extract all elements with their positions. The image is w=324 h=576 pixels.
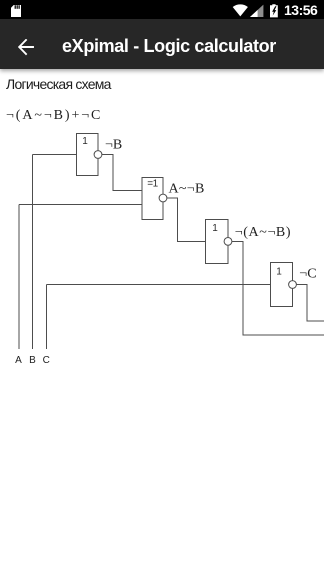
status bar (0, 0, 324, 19)
formula text (6, 108, 102, 124)
XNOR gate G2 body (142, 178, 163, 220)
svg-text:¬C: ¬C (299, 267, 316, 282)
app bar (0, 19, 324, 69)
wire A vertical (18, 205, 20, 350)
sdcard icon (11, 5, 21, 17)
NOT gate G3 body (206, 220, 228, 264)
XNOR gate G2 output bubble (159, 194, 167, 202)
svg-text:¬(A~¬B): ¬(A~¬B) (235, 225, 291, 240)
signal icon (250, 5, 263, 17)
wire A to XNOR G2 lower input (19, 204, 142, 206)
heading (6, 76, 111, 92)
wire G2 output to G3 input (163, 198, 206, 241)
wifi icon (233, 4, 248, 16)
svg-text:1: 1 (276, 267, 282, 278)
wire C vertical (46, 285, 48, 350)
svg-text:1: 1 (82, 136, 88, 147)
NOT gate G4 output bubble (289, 281, 297, 289)
NOT gate G4 body (271, 263, 293, 307)
wire G4 output to right edge (node to next gate input) (293, 285, 324, 322)
svg-text:A~¬B: A~¬B (169, 181, 205, 196)
battery icon (270, 4, 278, 17)
NOT gate G3 output bubble (224, 238, 232, 246)
wire G1 output to G2 upper input (98, 155, 142, 191)
wire C to NOT G4 input (47, 284, 271, 286)
svg-text:B: B (29, 355, 36, 366)
svg-text:C: C (43, 355, 50, 366)
svg-text:1: 1 (212, 223, 218, 234)
wire B vertical (32, 155, 34, 350)
svg-text:=1: =1 (147, 179, 158, 190)
wire B to NOT G1 input (33, 154, 77, 156)
svg-text:¬B: ¬B (105, 138, 122, 153)
NOT gate G1 body (77, 134, 99, 176)
wire G3 output to right edge (node to next gate input) (228, 241, 324, 335)
svg-text:A: A (15, 355, 22, 366)
NOT gate G1 output bubble (94, 151, 102, 159)
